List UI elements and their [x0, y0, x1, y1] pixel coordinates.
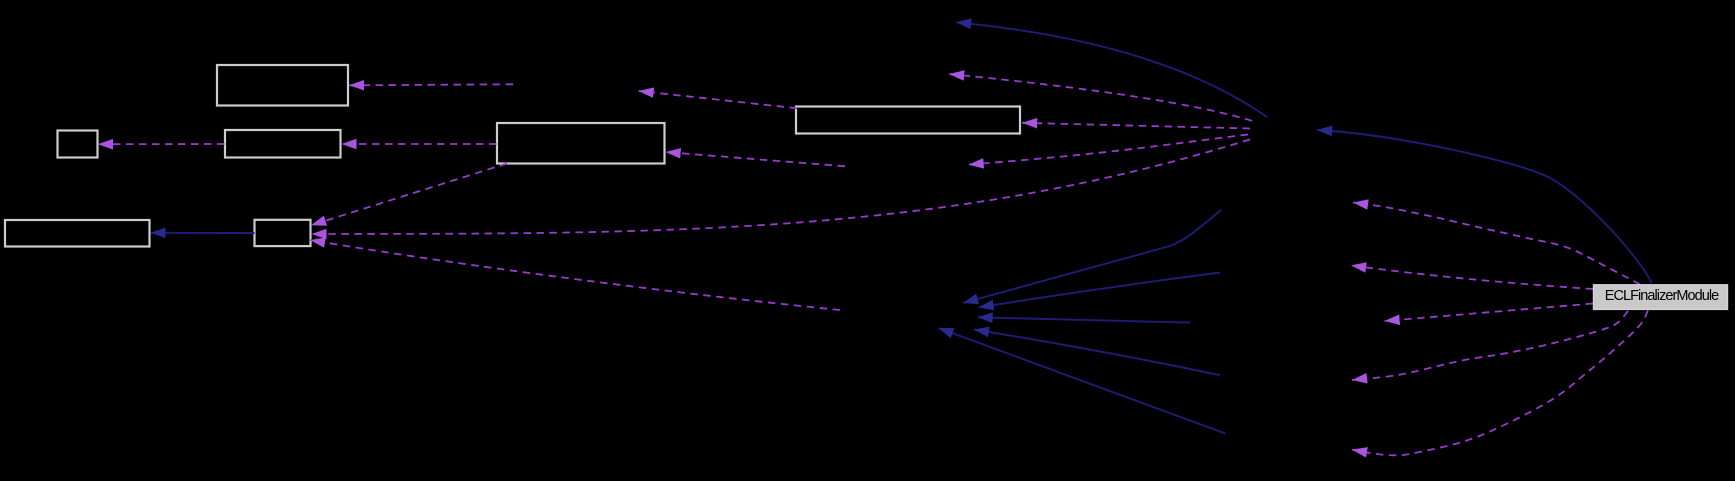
dashed edge D4 from box D to box C: [342, 143, 497, 145]
dashed edge D14d from ECLFinalizerModule to hidden node R4: [1352, 311, 1628, 380]
node box G (small bottom node): [255, 220, 311, 246]
dashed edge D14a from ECLFinalizerModule to hidden node R1: [1353, 203, 1640, 285]
node box A (top-left two-line node): [217, 65, 348, 106]
dashed edge D10 from box D bottom to box G: [311, 164, 507, 226]
dashed edge D2 from box E to hidden node X1: [639, 91, 798, 108]
node box B (small left node): [58, 131, 98, 158]
dashed edge D8 from hub to hidden node X3: [969, 135, 1249, 165]
blue edge B1 from box G to box F: [151, 232, 255, 234]
dashed edge D3 from box C to box B: [98, 143, 225, 145]
dashed edge D1 into box A: [349, 84, 513, 85]
blue edge B4 bent from hidden R1 to base node: [963, 210, 1221, 303]
dashed edge D11 from hidden node X2 to box G: [310, 240, 840, 310]
blue edge B5 from hidden R2 to base node: [979, 273, 1220, 308]
blue edge B7 from hidden R4 to base node: [974, 330, 1220, 376]
node box D (two-line node): [497, 123, 665, 164]
dashed edge D7 from hub to box E: [1022, 123, 1250, 129]
dashed edge D14b from ECLFinalizerModule to hidden node R2: [1351, 265, 1593, 289]
blue edge B2 curve from hub to top hidden node: [956, 22, 1267, 117]
dashed edge D14c from ECLFinalizerModule to hidden node R3: [1385, 304, 1594, 322]
svg-text:ECLFinalizerModule: ECLFinalizerModule: [1605, 288, 1719, 304]
dashed edge D6 from hub to hidden node top: [949, 74, 1252, 121]
dashed edge D5 from hidden node X3 to box D: [666, 152, 846, 166]
node box F (bottom-left wide node): [5, 220, 150, 247]
node box E (wide node): [796, 107, 1020, 134]
blue edge B6 from hidden R3 to base node: [978, 317, 1191, 322]
dashed edge D14e from ECLFinalizerModule to hidden node R5: [1352, 311, 1648, 456]
blue edge B8 from hidden R5 to base node: [938, 328, 1225, 434]
node box C: [225, 130, 341, 158]
dashed edge D9 long spline from hub to box G: [312, 139, 1251, 234]
blue edge B3 curve from ECLFinalizerModule to hub: [1317, 130, 1652, 283]
node ECLFinalizerModule (highlighted central node): [1594, 285, 1728, 310]
